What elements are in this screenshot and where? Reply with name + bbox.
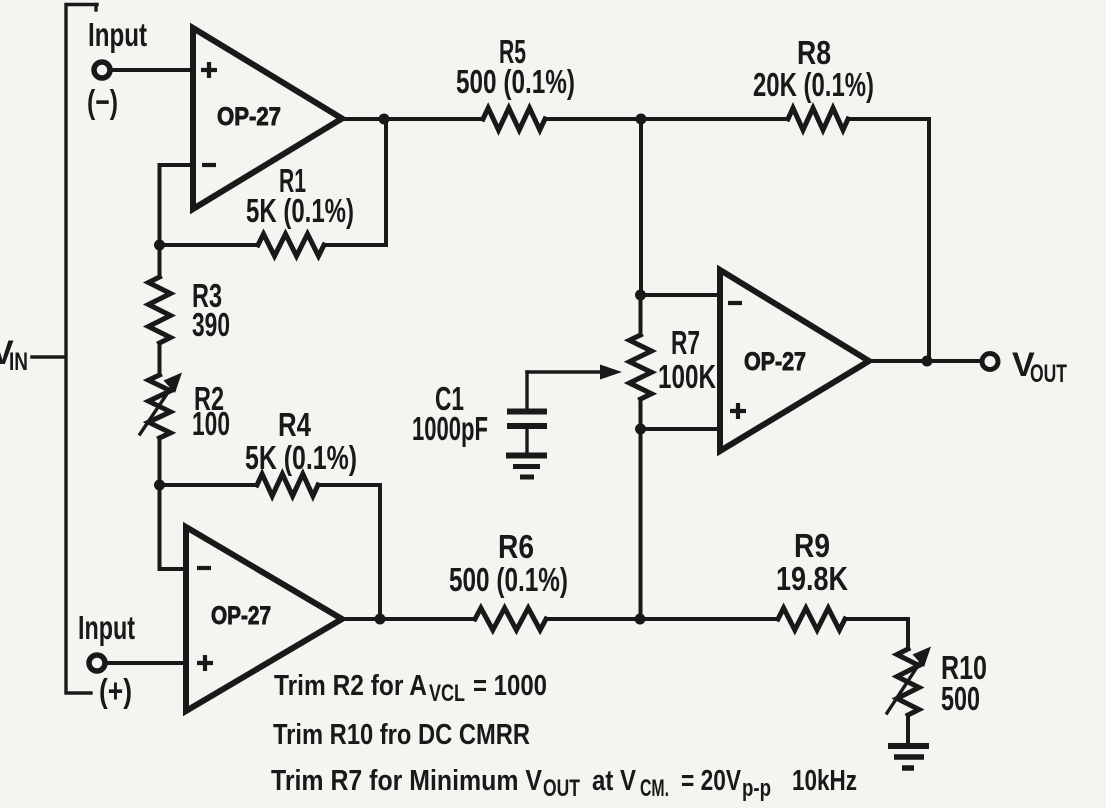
svg-text:OUT: OUT <box>1030 360 1067 388</box>
wire R7 bottom <box>639 399 643 429</box>
svg-text:5K (0.1%): 5K (0.1%) <box>246 192 354 229</box>
node U3 non-inverting junction <box>635 424 646 435</box>
note Trim R7 <box>271 765 857 802</box>
note Trim R2 <box>274 670 547 707</box>
wire R2 to R4 junction <box>158 438 162 485</box>
svg-text:390: 390 <box>192 306 230 343</box>
node bottom center junction <box>635 614 646 625</box>
svg-text:500 (0.1%): 500 (0.1%) <box>456 63 575 100</box>
node R4 junction <box>154 480 165 491</box>
svg-text:(−): (−) <box>87 83 118 120</box>
svg-text:Trim R10 fro DC CMRR: Trim R10 fro DC CMRR <box>273 719 530 751</box>
svg-text:500 (0.1%): 500 (0.1%) <box>449 561 568 598</box>
ground below R10 <box>888 746 929 768</box>
svg-text:Input: Input <box>78 609 135 646</box>
svg-text:R7: R7 <box>671 324 700 361</box>
svg-text:10kHz: 10kHz <box>792 765 857 797</box>
svg-text:OP-27: OP-27 <box>211 602 271 630</box>
wire R1 left <box>160 243 259 247</box>
wire input(+) to U2 <box>106 661 186 665</box>
node output junction <box>922 356 933 367</box>
wire top junction down <box>639 119 643 295</box>
wire U2 inverting input <box>160 485 187 569</box>
svg-text:IN: IN <box>9 348 28 376</box>
trimmer R2 100 <box>140 373 230 443</box>
svg-text:= 20V: = 20V <box>681 765 742 797</box>
op-amp U1 OP-27 <box>193 28 342 209</box>
svg-text:OP-27: OP-27 <box>217 103 281 131</box>
wire R4 right <box>318 483 380 487</box>
wire R1 to U1 output <box>384 119 388 245</box>
wire to R7 top <box>639 295 643 335</box>
svg-text:5K (0.1%): 5K (0.1%) <box>245 439 357 476</box>
svg-text:(+): (+) <box>99 672 132 709</box>
terminal Input (+) <box>78 609 135 709</box>
wire U3 output <box>869 359 981 363</box>
wire R9 to R10 <box>845 619 908 649</box>
op-amp U2 OP-27 <box>186 527 342 711</box>
resistor R3 390 <box>149 277 231 343</box>
input bracket <box>66 5 97 694</box>
svg-text:OUT: OUT <box>543 775 580 802</box>
resistor R1 5K (0.1%) <box>246 162 354 256</box>
terminal Input (-) <box>87 16 147 120</box>
wire U3 inverting input <box>641 293 721 297</box>
wire R1 right <box>324 243 386 247</box>
node U2 output junction <box>375 614 386 625</box>
wire U1 inverting input <box>160 165 194 245</box>
wire U2 output <box>342 617 475 621</box>
node VIN <box>0 334 64 376</box>
capacitor C1 1000pF <box>412 365 622 453</box>
svg-text:500: 500 <box>941 680 980 717</box>
svg-text:R9: R9 <box>794 527 830 564</box>
op-amp U3 OP-27 <box>720 270 869 451</box>
wire junction to R3 <box>158 245 162 277</box>
svg-text:CM.: CM. <box>640 775 669 802</box>
note Trim R10 <box>273 719 530 751</box>
wire R10 to ground <box>906 715 910 745</box>
svg-text:R4: R4 <box>278 406 312 443</box>
terminal VOUT <box>982 346 1067 388</box>
resistor R4 5K (0.1%) <box>245 406 357 496</box>
svg-text:R6: R6 <box>498 528 534 565</box>
ground below C1 <box>506 456 547 478</box>
resistor R5 500 (0.1%) <box>456 33 575 130</box>
svg-text:VCL: VCL <box>429 680 465 707</box>
svg-text:= 1000: = 1000 <box>473 670 547 702</box>
wire R6 to R9 <box>546 617 778 621</box>
wire U3 non-inverting input <box>641 427 721 431</box>
svg-text:100: 100 <box>192 405 230 442</box>
wire R4 left <box>160 483 258 487</box>
wire R8 to output node <box>848 119 929 361</box>
svg-text:20K (0.1%): 20K (0.1%) <box>753 66 874 103</box>
wire R4 to U2 output <box>378 485 382 619</box>
svg-text:Input: Input <box>88 16 147 53</box>
svg-text:19.8K: 19.8K <box>776 560 848 597</box>
wire U1 output <box>342 117 483 121</box>
svg-text:at V: at V <box>592 765 637 797</box>
wire down to bottom row <box>639 429 643 619</box>
node U1 output junction <box>379 114 390 125</box>
resistor R9 19.8K <box>776 527 848 630</box>
node center top junction <box>636 114 647 125</box>
svg-text:OP-27: OP-27 <box>744 348 806 376</box>
wire input(-) to U1 <box>111 68 193 72</box>
trimmer R10 500 <box>887 647 987 718</box>
svg-text:p-p: p-p <box>742 775 771 802</box>
svg-text:Trim R7 for Minimum V: Trim R7 for Minimum V <box>271 765 543 797</box>
resistor R6 500 (0.1%) <box>449 528 568 630</box>
svg-text:Trim R2 for A: Trim R2 for A <box>274 670 427 702</box>
wire R5 to R8 <box>545 117 788 121</box>
node U3 inverting junction <box>635 290 646 301</box>
wire R3 to R2 <box>158 343 162 375</box>
resistor R8 20K (0.1%) <box>753 34 874 130</box>
potentiometer R7 100K <box>630 324 717 399</box>
node U1 feedback junction <box>154 240 165 251</box>
svg-text:100K: 100K <box>658 358 716 395</box>
svg-text:1000pF: 1000pF <box>412 410 488 447</box>
